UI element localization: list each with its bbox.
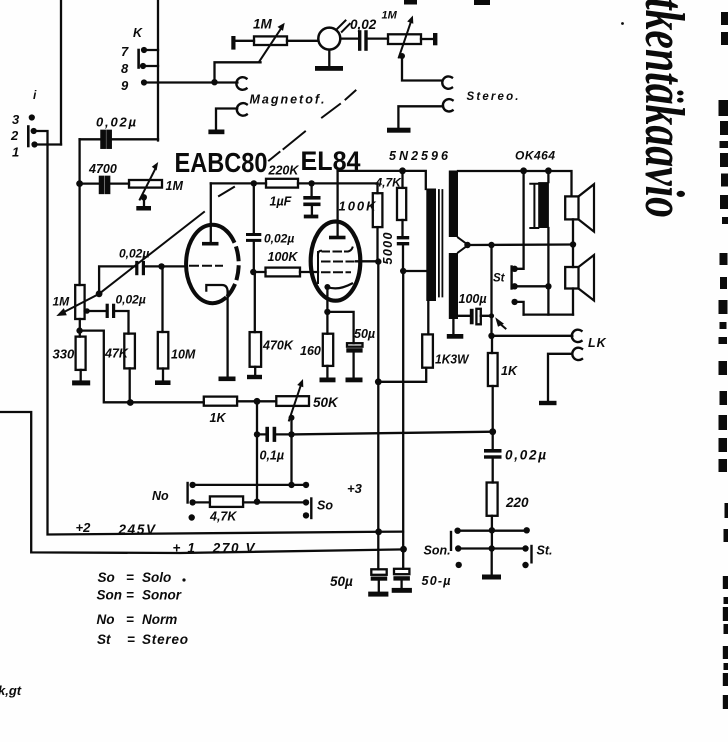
speaker 2 horn bbox=[579, 255, 595, 301]
svg-text:EL84: EL84 bbox=[301, 146, 361, 176]
node Son contact1 bbox=[454, 528, 460, 534]
svg-text:0,02µ: 0,02µ bbox=[119, 247, 149, 261]
resistor 4,7K (snubber) body bbox=[397, 188, 406, 220]
terminal bar pot1 left bbox=[231, 36, 235, 50]
transformer 5N2596 core lines bbox=[439, 190, 443, 297]
node No contact2 bbox=[189, 499, 195, 505]
wire pot2 wiper to Stereo jack bbox=[402, 56, 443, 81]
svg-text:100µ: 100µ bbox=[459, 292, 487, 306]
svg-text:K: K bbox=[133, 26, 143, 40]
ground below 50uF left bbox=[368, 592, 388, 597]
wire St middle contact to OK464 bbox=[515, 285, 549, 287]
wire 4700 row bbox=[80, 182, 129, 184]
ground below 50uF right bbox=[392, 588, 412, 593]
node So contact2 bbox=[303, 499, 309, 505]
tube EL84 grid1 row bbox=[318, 248, 353, 258]
capacitor 0,02u (cathode) plates bbox=[106, 304, 109, 318]
wire Son/St ground stem bbox=[491, 549, 493, 575]
tube EL84 cathode bbox=[327, 284, 352, 289]
potentiometer 1M (tone) wiper arrow bbox=[140, 169, 156, 200]
node feedback 1K bottom bbox=[489, 428, 496, 435]
svg-text:So: So bbox=[98, 570, 115, 585]
node No lower bbox=[189, 514, 195, 520]
node +2 rail bbox=[375, 528, 382, 535]
tube EABC80 envelope solid arc bbox=[186, 225, 227, 303]
capacitor 100uF plates bbox=[470, 309, 474, 325]
node 4700 junction bbox=[76, 180, 83, 187]
wire K-switch vertical feed bbox=[157, 0, 159, 141]
potentiometer 50K body bbox=[276, 396, 309, 406]
wire 5000 to primary tap bbox=[403, 245, 426, 271]
wire left supply bus down to +2 rail bbox=[48, 145, 404, 535]
tube EL84 anode bar bbox=[329, 236, 346, 240]
wire 100uF row bbox=[458, 315, 492, 317]
wire pot2 right terminal bbox=[421, 38, 433, 40]
transformer OK464 thin winding bbox=[530, 184, 538, 228]
svg-text:0,02µ: 0,02µ bbox=[505, 448, 546, 463]
svg-text:5000: 5000 bbox=[381, 232, 395, 264]
tube EABC80 anode stem bbox=[210, 183, 212, 242]
resistor 4,7K (snubber) stem bbox=[401, 171, 403, 188]
wire tap bus down bbox=[490, 245, 492, 336]
resistor 100K (screen) stem bbox=[376, 183, 378, 193]
node K pin9 bbox=[141, 79, 147, 85]
node K pin7 bbox=[141, 47, 147, 53]
svg-text:So: So bbox=[317, 499, 333, 513]
wire 220 to Son/St row bbox=[491, 516, 493, 531]
wire OK464 bottom down bbox=[547, 228, 549, 315]
tube EABC80 cathode bbox=[206, 285, 227, 292]
potentiometer 1M (stereo) wiper arrow bbox=[399, 22, 411, 58]
node interstage bbox=[250, 269, 256, 275]
node secondary tap bbox=[464, 242, 470, 248]
resistor 160 body bbox=[323, 334, 333, 366]
node LK row bbox=[488, 333, 494, 339]
wire volume bottom node to 1K row bbox=[80, 331, 204, 403]
speaker 1 horn bbox=[579, 184, 595, 231]
svg-text:=: = bbox=[126, 570, 134, 585]
wire grid node to EABC80 bbox=[162, 265, 187, 267]
svg-text:50µ: 50µ bbox=[330, 574, 353, 589]
wire 100K down to anode node bbox=[376, 227, 378, 262]
resistor 1K3W body bbox=[422, 334, 433, 367]
wire 1K3W bottom to anode bus bbox=[378, 368, 426, 382]
wire 470K stem bbox=[254, 272, 256, 332]
node So lower bbox=[303, 512, 309, 518]
svg-text:10M: 10M bbox=[171, 348, 196, 362]
wire speaker1 bottom bbox=[572, 219, 574, 267]
wire 50K node down to So row1 bbox=[290, 434, 292, 485]
node rail St drop bbox=[520, 167, 527, 174]
node i pin1 bbox=[31, 141, 37, 147]
potentiometer 1M (volume) body bbox=[75, 285, 84, 319]
long diagonal dashes bbox=[219, 91, 356, 197]
cropped mark top edge 1 bbox=[404, 0, 417, 5]
wire Son/St row2 bbox=[458, 547, 525, 549]
transformer 5N2596 secondary tap bbox=[458, 238, 468, 253]
wire 1K to 0,02u bbox=[492, 386, 494, 449]
connector Magnetof lower jack bbox=[237, 103, 247, 116]
svg-text:Norm: Norm bbox=[142, 612, 177, 627]
wire anode bus down (main vertical) bbox=[377, 262, 379, 570]
wire 220K row left corner bbox=[211, 182, 266, 184]
svg-text:EABC80: EABC80 bbox=[175, 147, 268, 178]
wire speaker2 bottom bbox=[572, 289, 574, 315]
wire secondary tap to speakers bbox=[468, 243, 574, 246]
resistor 47K body bbox=[124, 334, 135, 369]
wire 1K to 50K bbox=[237, 400, 276, 402]
svg-text:9: 9 bbox=[121, 78, 129, 93]
svg-text:100K: 100K bbox=[268, 250, 299, 264]
tube EABC80 anode bar bbox=[202, 242, 219, 246]
svg-text:1K: 1K bbox=[501, 364, 518, 378]
svg-text:0,02µ: 0,02µ bbox=[264, 232, 294, 246]
ground below 1uF bbox=[311, 206, 313, 215]
svg-text:4,7K: 4,7K bbox=[209, 510, 237, 524]
switch No bar bbox=[186, 483, 188, 503]
node i pin2 bbox=[31, 128, 37, 134]
wire grid node down to 10M bbox=[161, 266, 163, 332]
svg-text:St: St bbox=[493, 273, 506, 285]
svg-text:470K: 470K bbox=[262, 339, 294, 353]
connector LK upper jack bbox=[572, 330, 582, 342]
svg-text:4,7K: 4,7K bbox=[375, 176, 403, 190]
wire volume pot bottom bbox=[79, 319, 81, 337]
speaker 1 box bbox=[565, 196, 578, 219]
node 220K left bbox=[251, 180, 257, 186]
resistor 4,7K (switch) body bbox=[210, 496, 243, 507]
svg-text:+2: +2 bbox=[76, 520, 92, 535]
wire +1 rail from page edge bbox=[0, 412, 404, 553]
node No contact1 bbox=[189, 482, 195, 488]
capacitor 4700 plates bbox=[100, 177, 103, 193]
transformer OK464 thick winding bbox=[538, 182, 549, 228]
wire LK row bbox=[492, 335, 573, 337]
edge text fragments right margin bbox=[721, 12, 728, 25]
svg-text:0,02µ: 0,02µ bbox=[116, 293, 146, 307]
switch Son bar bbox=[450, 532, 452, 550]
resistor 470K body bbox=[250, 332, 262, 367]
svg-text:1M: 1M bbox=[53, 295, 71, 309]
svg-text:1M: 1M bbox=[253, 17, 273, 32]
tube EABC80 cathode stem to ground bbox=[226, 291, 228, 377]
node grid EABC80 bbox=[158, 263, 164, 269]
node row2 mid bbox=[254, 499, 260, 505]
wire pin7 stub bbox=[144, 49, 158, 51]
ground LK bbox=[539, 401, 557, 405]
svg-text:160: 160 bbox=[300, 344, 321, 358]
node pot2 wiper bbox=[399, 53, 405, 59]
wire pin8 stub bbox=[143, 65, 158, 67]
wire 0,02u to 220 bbox=[492, 459, 494, 483]
tube EABC80 grid dashes bbox=[190, 265, 222, 267]
wire OK464 top stub bbox=[547, 171, 549, 182]
node cathode bottom bbox=[324, 309, 330, 315]
node snubber bottom bbox=[400, 268, 406, 274]
transformer 5N2596 secondary winding upper bbox=[449, 171, 458, 238]
svg-text:47K: 47K bbox=[104, 347, 129, 361]
wire LK lower jack to ground bbox=[548, 354, 572, 401]
node St2 row1 bbox=[524, 527, 530, 533]
svg-text:1: 1 bbox=[12, 145, 19, 160]
wire top-left vertical bus bbox=[60, 0, 62, 145]
svg-text:=: = bbox=[126, 588, 134, 603]
tube EL84 grid2 row bbox=[322, 261, 354, 263]
wire No/So row1 bbox=[193, 484, 306, 486]
tube EABC80 envelope dashed arc bbox=[225, 232, 239, 299]
svg-text:245V: 245V bbox=[118, 522, 156, 537]
svg-text:Son.: Son. bbox=[424, 544, 451, 558]
resistor 100K (grid EL84) body bbox=[266, 268, 301, 277]
wire speaker bottom bus bbox=[524, 313, 573, 315]
ground below pickup bbox=[328, 50, 330, 66]
tube EL84 cathode stem bbox=[326, 287, 328, 312]
connector LK lower jack bbox=[572, 348, 582, 360]
wire B+ rail right segment bbox=[458, 171, 572, 196]
switch So bar bbox=[310, 499, 312, 519]
node 1K-50K bbox=[254, 398, 261, 405]
wire pickup to cap to pot2 bbox=[340, 37, 388, 39]
wire pin1 to bus bbox=[35, 143, 62, 145]
capacitor 0,1u plates bbox=[265, 427, 269, 442]
ground below 330 bbox=[80, 370, 82, 381]
node K pin8 bbox=[140, 63, 146, 69]
node EL84 cathode bbox=[324, 284, 330, 290]
potentiometer 50K wiper arrow bbox=[289, 385, 301, 421]
cropped mark top edge 2 bbox=[474, 0, 490, 5]
pickup circle bbox=[318, 28, 340, 50]
svg-text:1M: 1M bbox=[166, 179, 184, 193]
ground below 50uF bbox=[352, 353, 354, 378]
svg-text:3: 3 bbox=[12, 112, 20, 127]
tube EL84 envelope bbox=[311, 222, 361, 301]
node i pin3 bbox=[29, 114, 35, 120]
capacitor 0,02u (K line) left plate bbox=[101, 131, 104, 148]
node 220K right bbox=[308, 180, 314, 186]
node 1K3W bottom bbox=[375, 378, 382, 385]
node volume wiper bbox=[96, 290, 103, 297]
svg-text:50µ: 50µ bbox=[354, 327, 375, 341]
ground below 160 bbox=[326, 366, 328, 378]
wire 47K down to 1K row bbox=[129, 368, 131, 403]
node volume bottom bbox=[76, 327, 82, 333]
wire No/So row2 left bbox=[193, 501, 210, 503]
svg-text:+ 1 270 V: + 1 270 V bbox=[173, 541, 256, 556]
node tone pot wiper bbox=[141, 194, 147, 200]
node Magnetof junction bbox=[211, 79, 217, 85]
transformer 5N2596 primary winding bbox=[426, 189, 436, 302]
capacitor 0,02u (feedback) plates bbox=[484, 449, 502, 453]
node St contact1 bbox=[511, 266, 517, 272]
svg-text:7: 7 bbox=[121, 44, 129, 59]
wire Son/St row1 bbox=[458, 530, 527, 532]
node OK464 mid bbox=[545, 283, 551, 289]
tube EL84 grid3 row bbox=[322, 271, 350, 273]
resistor 1K (feedback) body bbox=[488, 353, 498, 386]
svg-text:50-µ: 50-µ bbox=[422, 574, 451, 588]
wire St switch feed from rail bbox=[515, 171, 524, 269]
node So contact1 bbox=[303, 482, 309, 488]
wire terminal to pot1 bbox=[236, 40, 255, 42]
wire pot1 to pickup circle bbox=[287, 40, 318, 42]
capacitor 0,02u (K line) right plate bbox=[107, 131, 110, 148]
pickup ticks bbox=[338, 21, 350, 32]
svg-text:100K: 100K bbox=[339, 199, 378, 214]
long diagonal section line solid bbox=[99, 212, 204, 294]
potentiometer 1M (tone) body bbox=[129, 180, 162, 188]
wire Stereo lower jack to ground bbox=[398, 106, 443, 127]
wire 50K wiper down bbox=[290, 418, 292, 435]
resistor 1K3W stem from primary bbox=[427, 301, 429, 334]
node rail OK464 bbox=[545, 167, 552, 174]
wire snubber bus down (to +1 rail and 50u) bbox=[402, 271, 404, 569]
wire 1K-50K node down through 0,1u row bbox=[256, 401, 258, 501]
node SonSt mid bbox=[489, 545, 495, 551]
connector Stereo lower jack bbox=[443, 99, 453, 111]
wire B+ rail left segment bbox=[338, 171, 426, 189]
resistor 10M body bbox=[158, 332, 169, 369]
node 0,1u left bbox=[254, 431, 260, 437]
svg-text:St.: St. bbox=[537, 544, 553, 558]
node rail 4,7K bbox=[399, 167, 406, 174]
connector Stereo upper jack bbox=[442, 76, 452, 88]
ground Son/St bbox=[482, 575, 501, 580]
tube EL84 anode stem from rail bbox=[336, 171, 338, 236]
svg-text:Stereo: Stereo bbox=[142, 632, 188, 647]
svg-text:=: = bbox=[127, 632, 135, 647]
wire cathode cap row bbox=[85, 311, 129, 334]
wire 0,1u row stubs bbox=[257, 433, 292, 435]
node 50K wiper bbox=[289, 415, 295, 421]
potentiometer 1M (Magnetof) body bbox=[254, 36, 287, 45]
wire St third contact hook bbox=[515, 302, 524, 315]
wire Magnetof node up to pot1 wiper bbox=[215, 62, 261, 82]
svg-text:0,02: 0,02 bbox=[350, 17, 377, 32]
ground below secondary bbox=[452, 319, 454, 334]
wire pin9 to Magnetof jack bbox=[144, 81, 237, 83]
wire Magnetof lower jack to ground bbox=[216, 109, 237, 130]
resistor 220 body bbox=[487, 483, 498, 516]
svg-text:k,gt: k,gt bbox=[0, 683, 22, 698]
potentiometer 1M (stereo) body bbox=[388, 34, 421, 44]
wire No/So row2 right bbox=[243, 501, 306, 503]
resistor 1K (cathode row) body bbox=[204, 397, 237, 406]
node St2 row2 bbox=[522, 545, 528, 551]
node speaker drop bbox=[570, 241, 576, 247]
node 220 bottom bbox=[489, 527, 495, 533]
svg-text:220: 220 bbox=[505, 495, 529, 510]
capacitor 1uF plates bbox=[303, 196, 320, 200]
wire 220K row right bbox=[298, 182, 378, 184]
node 0,1u right bbox=[288, 431, 294, 437]
capacitor 0,02 (pickup) plates bbox=[358, 30, 361, 51]
transformer 5N2596 secondary winding lower bbox=[449, 253, 458, 319]
potentiometer 1M (volume) wiper arrow to diagonal bbox=[63, 294, 99, 313]
wire cathode node to 160 bbox=[326, 312, 328, 334]
wire pin2 bracket bbox=[34, 131, 48, 145]
wire interstage cap to 100K row bbox=[253, 242, 255, 272]
switch i bar bbox=[27, 127, 30, 147]
capacitor 1uF stem bbox=[310, 183, 312, 196]
resistor 220K body bbox=[266, 179, 298, 188]
node +1 rail bbox=[400, 546, 407, 553]
tube EL84 left beam plate bbox=[317, 252, 319, 283]
svg-text:St: St bbox=[97, 632, 111, 647]
node Son lower bbox=[456, 562, 462, 568]
ground below 10M bbox=[162, 369, 164, 381]
capacitor 5000 stem bbox=[401, 220, 403, 236]
svg-text:330: 330 bbox=[53, 347, 75, 362]
wire wiper node to grid cap bbox=[99, 266, 161, 293]
connector Magnetof upper jack bbox=[236, 77, 246, 90]
ground Magnetof bbox=[208, 130, 224, 135]
wire left node vertical bbox=[78, 139, 80, 285]
svg-text:Son: Son bbox=[97, 588, 123, 603]
capacitor 0,02u (interstage) plates bbox=[246, 233, 261, 236]
svg-text:1M: 1M bbox=[382, 10, 398, 22]
capacitor 50uF right electrolytic bbox=[394, 569, 409, 574]
svg-text:8: 8 bbox=[121, 61, 129, 76]
node cathode cap tap bbox=[84, 308, 90, 314]
capacitor 0,02u (grid) plates bbox=[135, 261, 138, 275]
node St contact3 bbox=[511, 299, 517, 305]
ground below 1M tone pot bbox=[143, 198, 145, 206]
ground Stereo bbox=[387, 128, 411, 133]
svg-text:Sonor: Sonor bbox=[142, 588, 182, 603]
wire 100K row bbox=[253, 271, 318, 273]
svg-text:0,02µ: 0,02µ bbox=[96, 115, 137, 130]
svg-text:4700: 4700 bbox=[88, 162, 117, 176]
ground EABC80 cathode bbox=[219, 377, 236, 382]
switch St bar bbox=[510, 267, 512, 289]
switch K bar bbox=[137, 50, 140, 68]
arrow mark at 100uF node bbox=[499, 323, 506, 329]
svg-text:No: No bbox=[97, 612, 115, 627]
switch St2 bar bbox=[530, 546, 532, 562]
svg-text:Solo: Solo bbox=[142, 570, 171, 585]
wire row1 to row2 bbox=[491, 530, 493, 548]
svg-text:No: No bbox=[152, 489, 169, 503]
speaker 2 box bbox=[565, 267, 578, 289]
svg-text:+3: +3 bbox=[347, 481, 363, 496]
node St contact2 bbox=[511, 283, 517, 289]
svg-text:1K: 1K bbox=[210, 411, 227, 425]
node EL84 anode bbox=[375, 258, 381, 264]
node 47K row bbox=[127, 399, 134, 406]
node tap bus top bbox=[488, 242, 494, 248]
resistor 100K (screen) body bbox=[373, 193, 383, 227]
potentiometer 1M (Magnetof) wiper arrow bbox=[259, 28, 281, 62]
node row1 50K drop bbox=[288, 482, 294, 488]
svg-text:OK464: OK464 bbox=[515, 149, 555, 163]
svg-text:=: = bbox=[126, 612, 134, 627]
svg-text:tkentäkaavio: tkentäkaavio bbox=[633, 0, 695, 218]
node St2 lower bbox=[522, 562, 528, 568]
svg-text:50K: 50K bbox=[313, 395, 339, 410]
ground below 470K bbox=[254, 367, 256, 375]
node 100uF junction bbox=[489, 313, 494, 318]
wire 0,02u row bbox=[80, 138, 158, 140]
svg-text:0,1µ: 0,1µ bbox=[260, 449, 285, 463]
svg-text:LK: LK bbox=[588, 336, 607, 350]
capacitor 5000 plates bbox=[397, 236, 409, 239]
capacitor 50uF left electrolytic bbox=[371, 569, 386, 575]
resistor 1K (feedback) stem bbox=[491, 336, 493, 353]
svg-text:2: 2 bbox=[10, 128, 19, 143]
speck bbox=[621, 22, 624, 25]
svg-text:1K3W: 1K3W bbox=[435, 352, 470, 367]
svg-text:1µF: 1µF bbox=[270, 195, 292, 209]
